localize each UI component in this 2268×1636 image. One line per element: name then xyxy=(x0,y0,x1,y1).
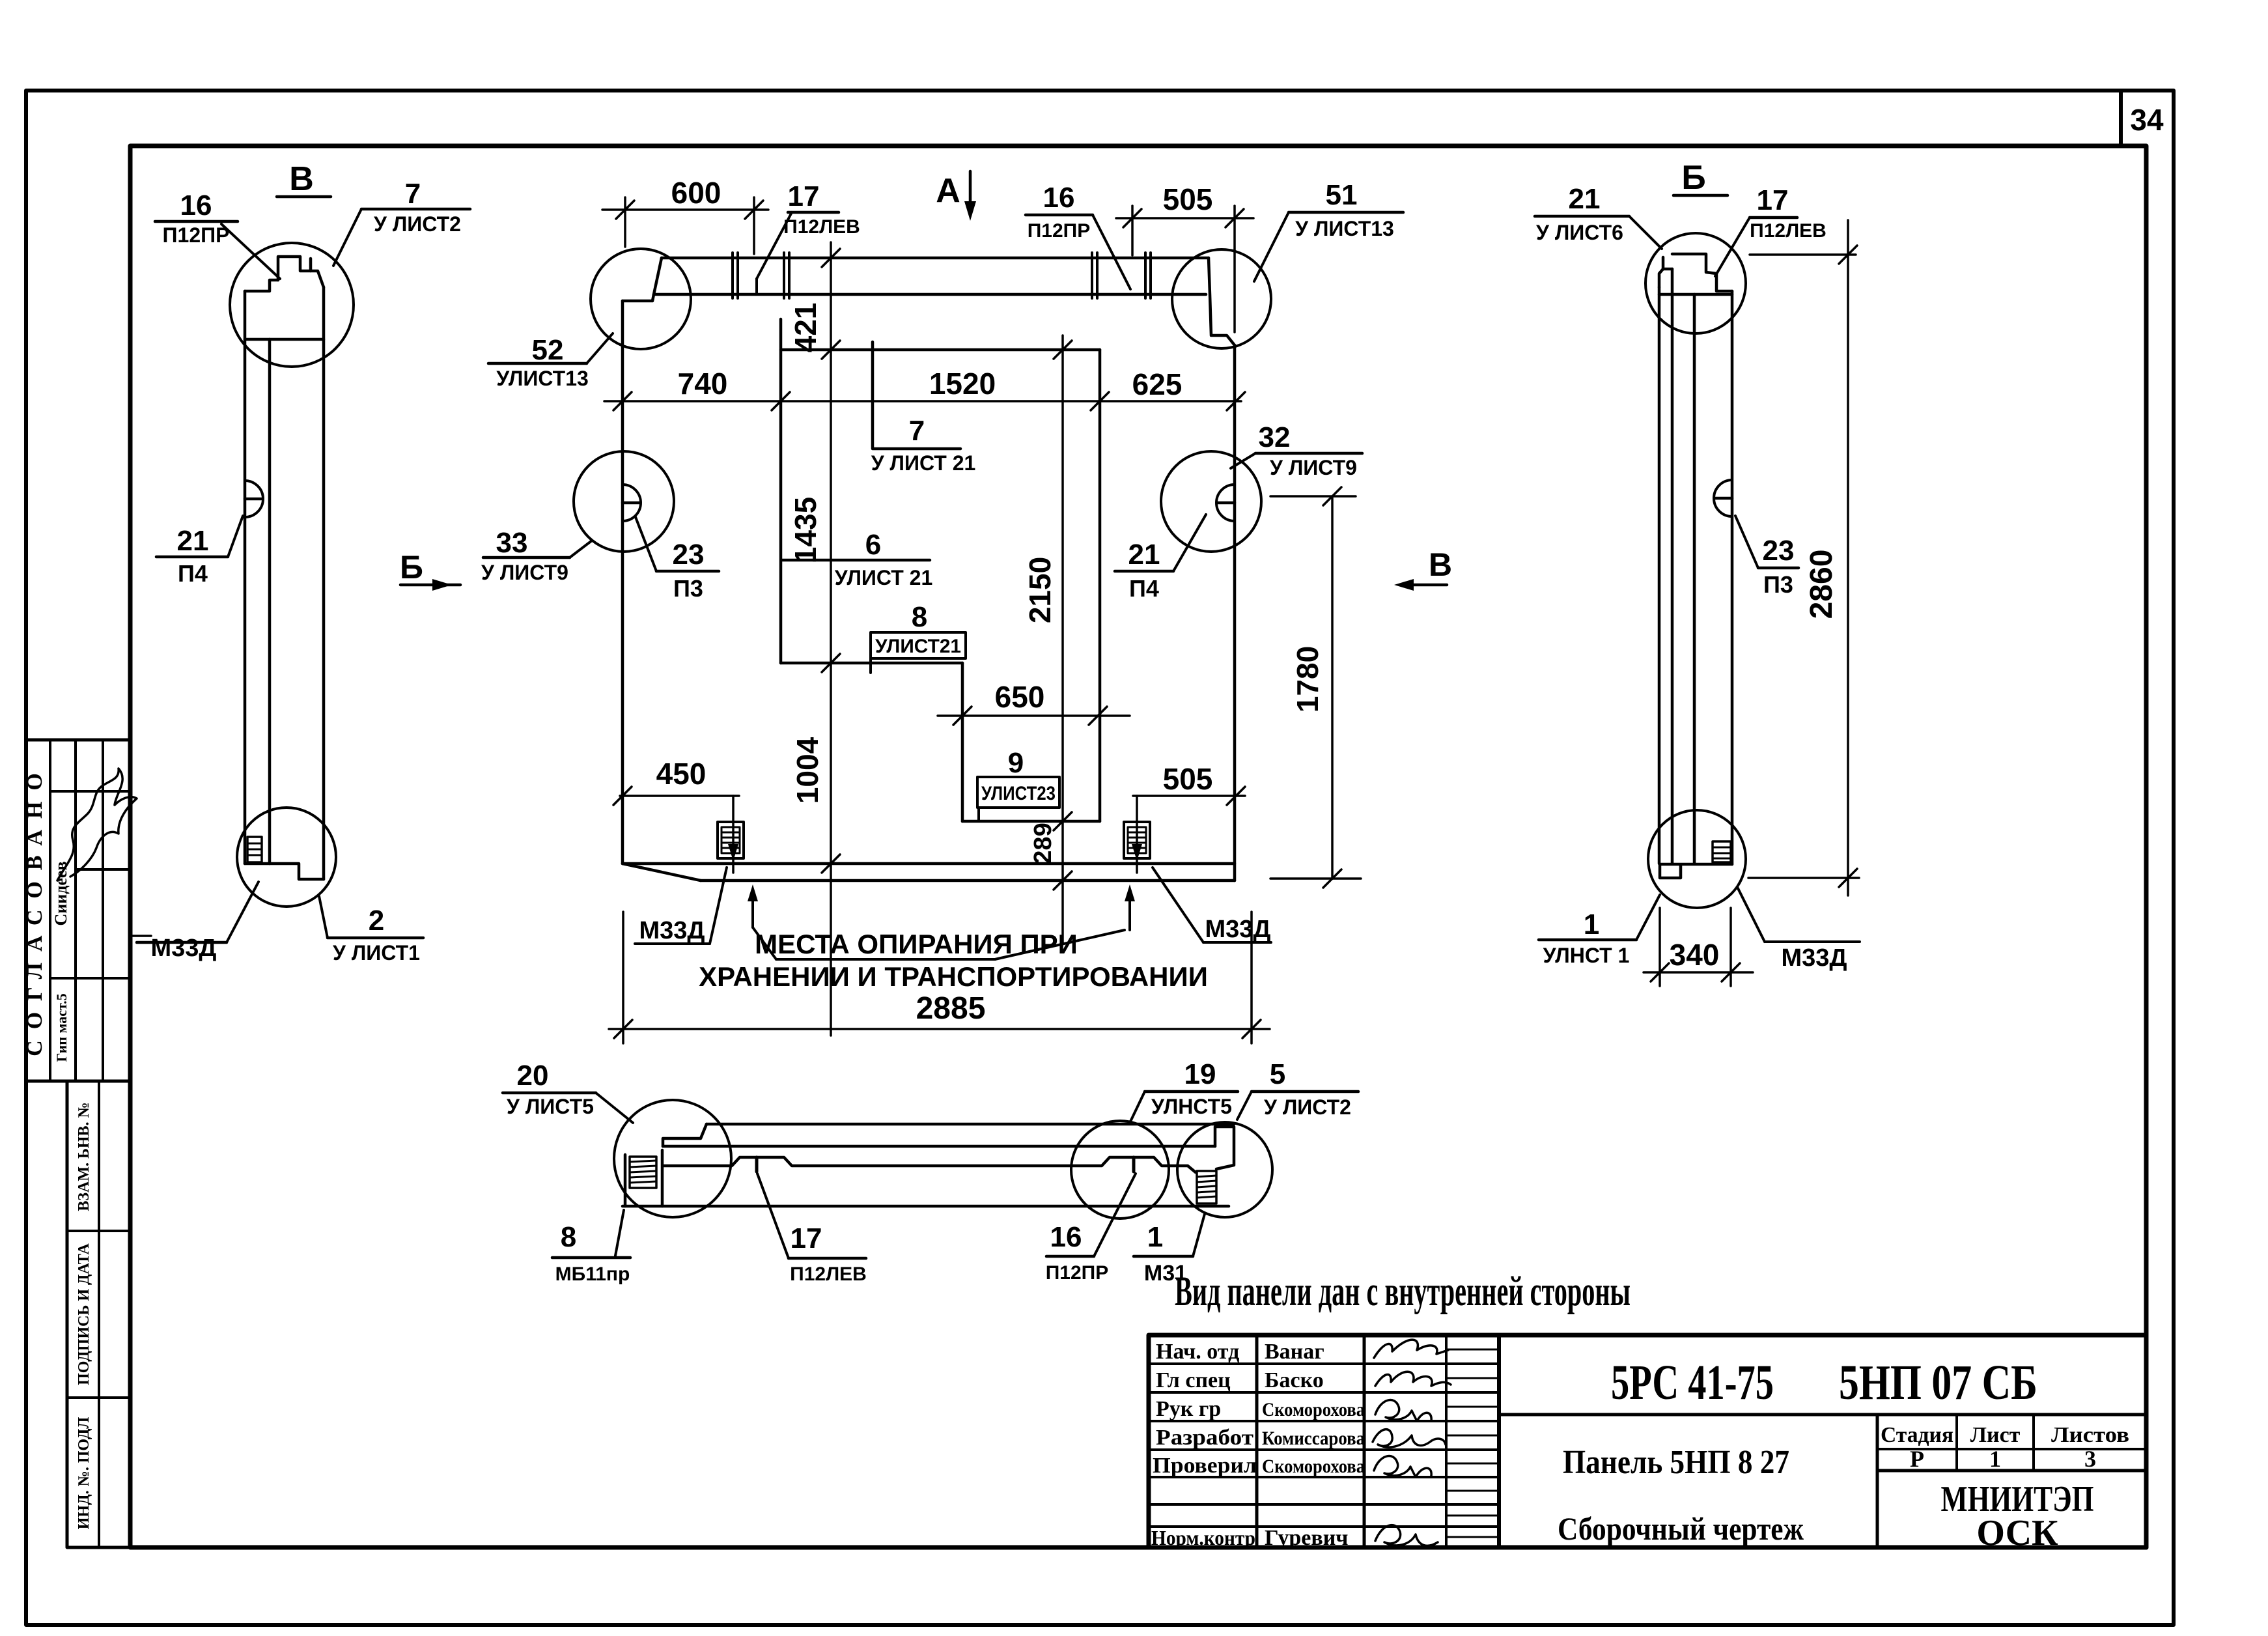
svg-text:21: 21 xyxy=(1569,183,1601,215)
М33д anchor (left view) xyxy=(247,837,262,862)
top bar left end diagonal xyxy=(654,258,662,294)
LEFT MARGIN STAMPS xyxy=(23,740,137,1547)
bottom edge with step (right view) xyxy=(1660,864,1732,878)
svg-text:Ванаг: Ванаг xyxy=(1265,1340,1324,1364)
svg-text:34: 34 xyxy=(2130,103,2164,137)
leader 16 xyxy=(221,224,280,279)
top-left step xyxy=(663,1124,707,1146)
opening step horizontal xyxy=(781,662,962,665)
dim row 740/1520/625 xyxy=(604,367,1245,410)
stamp row line 3 xyxy=(50,977,130,980)
svg-text:П3: П3 xyxy=(673,575,703,602)
svg-text:М33Д: М33Д xyxy=(151,935,217,962)
svg-text:П12ПР: П12ПР xyxy=(1028,220,1091,242)
leader 7 xyxy=(333,209,361,266)
П4 semicircle connector (main right) xyxy=(1216,485,1235,521)
svg-text:У ЛИСТ5: У ЛИСТ5 xyxy=(507,1095,594,1118)
underline of В xyxy=(277,195,331,199)
svg-text:7: 7 xyxy=(909,415,925,447)
right end block xyxy=(1215,1127,1234,1169)
outer left edge xyxy=(1658,287,1661,864)
column line 2 xyxy=(1363,1335,1366,1547)
detail circle mid-left (main) xyxy=(574,451,674,552)
joint line xyxy=(245,338,324,341)
panel left edge xyxy=(621,301,624,864)
left outer edge xyxy=(244,291,247,864)
svg-text:505: 505 xyxy=(1163,182,1213,216)
svg-text:Гип маст.5: Гип маст.5 xyxy=(53,993,70,1062)
stamp column line 3 xyxy=(102,740,104,1081)
detail circle top (right view) xyxy=(1645,233,1746,333)
sheet number box xyxy=(2119,91,2123,146)
approver signature squiggle (rotated cursive) xyxy=(57,769,137,881)
note МЕСТА ОПИРАНИЯ with bracket xyxy=(699,884,1208,992)
svg-text:У ЛИСТ1: У ЛИСТ1 xyxy=(333,941,420,965)
top-right corner profile xyxy=(1209,258,1235,345)
МБ11пр anchor (hatched) xyxy=(630,1157,656,1188)
detail circle right a (section) xyxy=(1071,1121,1169,1219)
TITLE BLOCK xyxy=(1149,1335,2146,1553)
joint mark pair П12ЛЕВ a xyxy=(731,253,734,298)
svg-text:Б: Б xyxy=(1681,159,1705,197)
joint line xyxy=(1659,293,1732,296)
NOTE TEXT xyxy=(1175,1268,1631,1315)
svg-text:21: 21 xyxy=(177,525,209,557)
svg-text:1: 1 xyxy=(1147,1221,1163,1253)
vertical dim line 2150/289 xyxy=(1023,335,1072,944)
svg-text:1435: 1435 xyxy=(789,497,822,563)
svg-text:УЛИСТ21: УЛИСТ21 xyxy=(875,636,961,657)
opening left edge xyxy=(779,319,783,663)
detail circle top (left view) xyxy=(230,243,354,367)
opening bottom edge xyxy=(962,820,1100,823)
svg-text:505: 505 xyxy=(1163,762,1213,796)
bottom skirt left diagonal xyxy=(623,864,701,881)
dim 340 xyxy=(1644,908,1753,986)
П3 semicircle connector (right view) xyxy=(1714,480,1732,516)
М33Д anchor right (main) xyxy=(1124,822,1150,858)
svg-text:1004: 1004 xyxy=(791,737,824,804)
svg-text:33: 33 xyxy=(496,527,528,559)
svg-text:23: 23 xyxy=(1763,535,1795,567)
svg-text:У ЛИСТ13: У ЛИСТ13 xyxy=(1295,217,1394,240)
outer right edge xyxy=(1731,291,1734,864)
column line 1 xyxy=(1255,1335,1259,1547)
svg-text:450: 450 xyxy=(656,757,707,791)
М33Д anchor left (main) xyxy=(718,822,744,858)
П4 semicircle connector xyxy=(245,481,263,517)
svg-text:16: 16 xyxy=(180,190,212,221)
svg-text:5НП 07 СБ: 5НП 07 СБ xyxy=(1839,1355,2037,1410)
role labels xyxy=(1151,1340,1257,1549)
signature squiggles xyxy=(1374,1340,1448,1358)
joint mark pair П12ЛЕВ b xyxy=(783,253,785,298)
svg-text:51: 51 xyxy=(1326,179,1358,211)
П12ЛЕВ tick xyxy=(755,1157,759,1172)
head profile right slope xyxy=(311,271,324,287)
П12ПР tick xyxy=(1132,1157,1136,1172)
svg-text:740: 740 xyxy=(678,367,728,401)
dim 600 xyxy=(602,176,768,254)
svg-text:650: 650 xyxy=(995,680,1045,714)
column line 3 xyxy=(1445,1335,1448,1547)
stage table xyxy=(1876,1415,1879,1547)
svg-text:П3: П3 xyxy=(1763,571,1793,598)
svg-text:ХРАНЕНИИ И ТРАНСПОРТИРОВАНИИ: ХРАНЕНИИ И ТРАНСПОРТИРОВАНИИ xyxy=(699,961,1208,992)
section top edge xyxy=(707,1123,1234,1126)
svg-text:Стадия: Стадия xyxy=(1881,1423,1953,1447)
svg-text:17: 17 xyxy=(791,1222,822,1254)
svg-text:Норм.контр: Норм.контр xyxy=(1151,1526,1255,1549)
svg-text:МЕСТА ОПИРАНИЯ ПРИ: МЕСТА ОПИРАНИЯ ПРИ xyxy=(755,929,1078,959)
svg-text:Нач. отд: Нач. отд xyxy=(1156,1340,1239,1364)
detail circle bottom (right view) xyxy=(1648,810,1746,908)
stamp column line 1 xyxy=(49,740,51,1081)
stamp row line 1 xyxy=(50,790,130,793)
svg-text:ВЗАМ. ЬНВ. №: ВЗАМ. ЬНВ. № xyxy=(76,1102,92,1211)
RIGHT SIDE VIEW (Б) xyxy=(1535,159,1860,986)
svg-text:МБ11пр: МБ11пр xyxy=(555,1263,630,1285)
leader М33Д xyxy=(227,882,259,942)
svg-text:7: 7 xyxy=(405,178,421,210)
pocket left wall xyxy=(624,1155,627,1206)
svg-text:Разработ: Разработ xyxy=(1156,1426,1253,1450)
svg-text:П12ЛЕВ: П12ЛЕВ xyxy=(790,1263,867,1285)
svg-text:8: 8 xyxy=(912,601,927,633)
svg-text:Р: Р xyxy=(1910,1446,1924,1472)
opening right edge xyxy=(1099,350,1102,821)
svg-text:ОСК: ОСК xyxy=(1976,1513,2058,1553)
svg-text:Гл спец: Гл спец xyxy=(1156,1368,1231,1392)
opening step vertical xyxy=(961,663,964,821)
svg-text:В: В xyxy=(1429,546,1452,583)
joint mark pair П12ПР a xyxy=(1091,253,1093,298)
svg-text:32: 32 xyxy=(1259,421,1291,453)
svg-text:УЛИСТ13: УЛИСТ13 xyxy=(496,367,589,390)
right outer edge xyxy=(322,287,326,879)
svg-text:17: 17 xyxy=(1757,184,1789,216)
svg-text:П12ЛЕВ: П12ЛЕВ xyxy=(1750,220,1827,242)
document number cell xyxy=(1499,1413,2146,1417)
inner edge line xyxy=(268,339,272,864)
svg-text:16: 16 xyxy=(1043,182,1075,214)
head step left xyxy=(245,280,278,291)
П4 mid line xyxy=(245,498,262,501)
svg-text:Проверил: Проверил xyxy=(1153,1454,1257,1478)
name cells xyxy=(1262,1340,1365,1550)
svg-text:1: 1 xyxy=(1584,909,1599,940)
row lines of signature table xyxy=(1149,1362,1499,1365)
vertical dim line 421/1435/1004 xyxy=(789,242,840,1036)
leader 2 xyxy=(319,896,328,938)
head profile top edge xyxy=(278,257,311,280)
inner frame xyxy=(130,146,2146,1547)
svg-text:П12ПР: П12ПР xyxy=(163,223,230,247)
svg-text:ПОДПИСЬ И ДАТА: ПОДПИСЬ И ДАТА xyxy=(76,1243,92,1385)
LEFT SIDE VIEW (B) xyxy=(133,160,470,965)
svg-text:Скоморохова: Скоморохова xyxy=(1262,1399,1365,1420)
panel bottom skirt line xyxy=(701,879,1235,882)
П3 semicircle connector (main left) xyxy=(623,485,641,521)
svg-text:Лист: Лист xyxy=(1970,1423,2021,1447)
svg-text:М33Д: М33Д xyxy=(639,917,705,944)
svg-text:У ЛИСТ6: У ЛИСТ6 xyxy=(1536,221,1623,244)
dim 505 (bottom) xyxy=(1132,762,1245,873)
bottom edge xyxy=(623,1205,1229,1208)
svg-text:Панель 5НП 8 27: Панель 5НП 8 27 xyxy=(1563,1444,1789,1481)
svg-text:Вид панели дан с внутренней ст: Вид панели дан с внутренней стороны xyxy=(1175,1268,1631,1315)
svg-text:П4: П4 xyxy=(178,560,208,587)
svg-text:8: 8 xyxy=(561,1221,576,1253)
svg-text:600: 600 xyxy=(671,176,721,210)
svg-text:340: 340 xyxy=(1670,938,1720,972)
svg-text:21: 21 xyxy=(1128,539,1160,571)
svg-text:Рук гр: Рук гр xyxy=(1156,1397,1221,1421)
dim 2885 xyxy=(609,912,1270,1043)
inner face line with П12 platforms xyxy=(664,1157,1196,1172)
svg-text:9: 9 xyxy=(1008,747,1024,779)
svg-text:Скоморохова: Скоморохова xyxy=(1262,1456,1365,1477)
svg-text:23: 23 xyxy=(673,539,705,571)
svg-text:2860: 2860 xyxy=(1804,550,1839,619)
panel bottom edge xyxy=(623,862,1235,866)
panel right edge xyxy=(1233,345,1237,881)
detail circle bottom (left view) xyxy=(237,808,336,907)
stamp row line 2 xyxy=(76,868,130,871)
head profile (right view) xyxy=(1663,257,1672,269)
lower stamp divider 1 xyxy=(67,1230,130,1232)
svg-text:Комиссарова: Комиссарова xyxy=(1262,1428,1365,1449)
lower stamp block (ВЗАМ/ПОДПИСЬ/ИНВ) xyxy=(67,1081,130,1547)
dim 505 (top) xyxy=(1116,182,1253,332)
svg-text:Сборочный чертеж: Сборочный чертеж xyxy=(1558,1510,1804,1547)
approval stamp table (СОГЛАСОВАНО block) xyxy=(26,740,130,1081)
svg-text:1780: 1780 xyxy=(1291,646,1324,712)
column line 4 (separator to doc cell) xyxy=(1497,1335,1501,1547)
svg-text:Сиидеев: Сиидеев xyxy=(51,861,70,925)
svg-text:5: 5 xyxy=(1270,1058,1285,1090)
detail circle left (section) xyxy=(614,1100,731,1217)
underline of Б xyxy=(1673,194,1728,197)
BOTTOM SECTION VIEW xyxy=(503,1058,1358,1286)
dim 1780 xyxy=(1270,487,1361,888)
svg-text:52: 52 xyxy=(532,334,564,366)
svg-text:16: 16 xyxy=(1050,1221,1082,1253)
half-row lines in date column xyxy=(1446,1349,1499,1537)
svg-text:П12ЛЕВ: П12ЛЕВ xyxy=(783,216,860,238)
second line xyxy=(663,1145,1215,1148)
svg-text:М33Д: М33Д xyxy=(1205,916,1271,943)
svg-text:В: В xyxy=(289,160,314,198)
leader 21 xyxy=(228,516,243,557)
top bar bottom edge xyxy=(654,293,1206,296)
svg-text:20: 20 xyxy=(517,1060,549,1092)
svg-text:М33Д: М33Д xyxy=(1782,944,1847,972)
svg-text:У ЛИСТ 21: У ЛИСТ 21 xyxy=(871,451,976,475)
svg-text:19: 19 xyxy=(1184,1058,1216,1090)
svg-text:У ЛИСТ9: У ЛИСТ9 xyxy=(481,561,568,584)
svg-text:УЛНСТ 1: УЛНСТ 1 xyxy=(1543,944,1630,967)
svg-text:СОГЛАСОВАНО: СОГЛАСОВАНО xyxy=(23,762,47,1056)
svg-text:17: 17 xyxy=(788,180,820,212)
svg-text:У ЛИСТ2: У ЛИСТ2 xyxy=(1264,1095,1351,1119)
svg-text:6: 6 xyxy=(865,529,881,561)
svg-text:2885: 2885 xyxy=(916,991,986,1026)
top bar top edge xyxy=(662,257,1209,260)
top-left corner step xyxy=(623,294,654,301)
svg-text:1: 1 xyxy=(1989,1446,2001,1472)
svg-text:625: 625 xyxy=(1132,367,1183,401)
detail circle right b (section) xyxy=(1177,1122,1272,1217)
inner line b xyxy=(1693,294,1696,864)
svg-text:ИНД. №. ПОДЛ: ИНД. №. ПОДЛ xyxy=(76,1417,92,1530)
dim 2860 xyxy=(1748,220,1859,896)
М31 anchor (hatched) xyxy=(1197,1171,1216,1204)
detail circle top-right (main) xyxy=(1172,249,1271,348)
opening top edge xyxy=(781,348,1100,352)
svg-text:Гуревич: Гуревич xyxy=(1265,1526,1348,1550)
lower stamp mid column xyxy=(98,1081,100,1547)
pocket right wall xyxy=(661,1150,664,1206)
detail circle mid-right (main) xyxy=(1161,451,1261,552)
lower stamp divider 2 xyxy=(67,1396,130,1399)
svg-text:П4: П4 xyxy=(1129,575,1159,602)
svg-text:2150: 2150 xyxy=(1023,557,1057,623)
title block outer box xyxy=(1149,1335,2146,1547)
joint mark pair П12ПР b xyxy=(1144,253,1147,298)
svg-text:Б: Б xyxy=(400,549,423,585)
М33Д anchor (right view) xyxy=(1713,841,1731,862)
svg-text:2: 2 xyxy=(369,905,384,937)
svg-text:421: 421 xyxy=(789,303,822,353)
detail circle top-left (main) xyxy=(591,249,691,349)
svg-text:3: 3 xyxy=(2084,1446,2096,1472)
bottom edge with step xyxy=(245,864,324,879)
svg-text:УЛНСТ5: УЛНСТ5 xyxy=(1151,1095,1232,1118)
svg-text:1520: 1520 xyxy=(929,367,996,401)
dim 450 xyxy=(613,757,739,873)
svg-text:У ЛИСТ9: У ЛИСТ9 xyxy=(1270,456,1357,479)
svg-text:289: 289 xyxy=(1029,823,1057,864)
svg-text:У ЛИСТ2: У ЛИСТ2 xyxy=(374,212,461,236)
svg-text:П12ПР: П12ПР xyxy=(1046,1262,1109,1284)
svg-text:УЛИСТ23: УЛИСТ23 xyxy=(981,783,1056,804)
inner line a xyxy=(1671,269,1674,864)
svg-text:УЛИСТ 21: УЛИСТ 21 xyxy=(835,566,932,589)
svg-text:А: А xyxy=(936,172,960,210)
stamp column line 2 xyxy=(74,740,77,1081)
svg-text:Листов: Листов xyxy=(2051,1423,2129,1447)
dim 650 xyxy=(938,680,1130,725)
svg-text:5РС 41-75: 5РС 41-75 xyxy=(1611,1355,1774,1410)
svg-text:Баско: Баско xyxy=(1265,1368,1324,1392)
MAIN VIEW xyxy=(481,171,1452,1043)
left slope xyxy=(1659,269,1663,287)
